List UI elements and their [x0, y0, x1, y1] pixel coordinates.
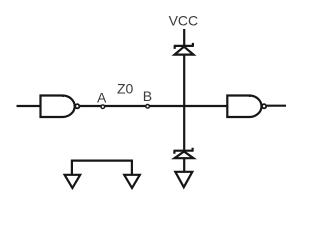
diode D1 schottky cathode bar	[174, 43, 194, 49]
node B	[146, 105, 150, 109]
pin tick U1	[62, 95, 64, 97]
wire VCC down to diode D1	[183, 29, 185, 45]
nand gate U1	[41, 96, 75, 118]
svg-text:A: A	[97, 89, 107, 105]
ground arrow left	[65, 175, 81, 188]
ground arrow right	[124, 175, 140, 188]
wire U2 output right	[267, 105, 286, 107]
svg-text:B: B	[143, 88, 152, 104]
node A	[101, 105, 105, 109]
wire input left	[17, 105, 41, 107]
svg-text:VCC: VCC	[169, 12, 199, 28]
diode D1 triangle	[175, 47, 194, 55]
bubble U1 output	[75, 104, 79, 108]
wire D1 to crossing to diode D2	[183, 55, 185, 150]
diode D2 schottky cathode bar	[174, 148, 194, 154]
diode D2 triangle	[175, 152, 194, 159]
wire U1 output to node A to node B to crossing to U2 input	[80, 105, 227, 107]
pin tick U2	[249, 95, 251, 97]
bracket wire bottom left	[72, 161, 132, 175]
ground arrow middle	[175, 172, 192, 187]
nand gate U2	[227, 96, 261, 118]
bubble U2 output	[262, 104, 266, 108]
svg-text:Z0: Z0	[117, 80, 134, 96]
wire D2 to ground arrow	[183, 158, 185, 171]
